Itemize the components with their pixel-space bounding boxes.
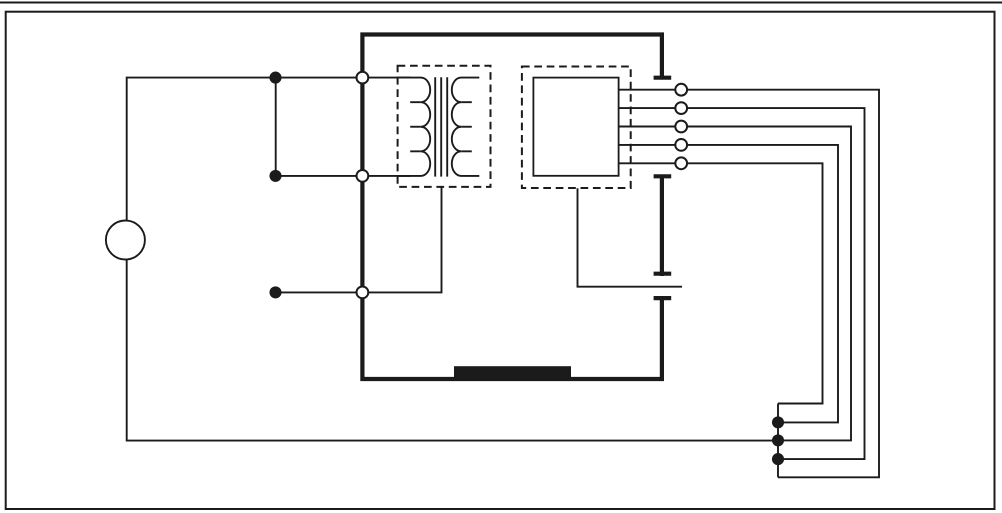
regulator block U1 dashed enclosure xyxy=(522,67,631,189)
junction dot return 1 xyxy=(772,416,784,428)
AC source V1 xyxy=(106,221,145,260)
output terminal 1 xyxy=(675,84,687,96)
output pin 2 wire xyxy=(619,108,865,459)
primary bus (thick loop) xyxy=(362,35,662,380)
output pin 4 wire xyxy=(619,145,838,423)
wire: row 1 to transformer primary xyxy=(276,77,411,79)
transformer T1 primary winding xyxy=(397,78,430,176)
output terminal 2 xyxy=(675,102,687,114)
regulator block U1 body xyxy=(533,78,618,176)
primary winding turn ticks xyxy=(410,102,421,151)
electrode plate E3 (lower) xyxy=(654,296,672,300)
output pin 1 wire xyxy=(619,90,879,478)
secondary winding turn ticks xyxy=(461,102,472,151)
top rule line xyxy=(0,2,1002,4)
output terminal 4 xyxy=(675,139,687,151)
capacitor C1 middle plate with lead from regulator xyxy=(578,188,683,286)
wire: row 2 to transformer primary xyxy=(276,175,411,177)
connector pin dot row 2 xyxy=(269,170,281,182)
wire: link between pin dots xyxy=(275,78,277,176)
bus terminal row 2 xyxy=(357,170,369,182)
wire: AC source to top row xyxy=(127,78,276,221)
wire: AC source bottom return xyxy=(127,260,778,441)
common return node wire xyxy=(777,404,779,478)
transformer T1 secondary winding xyxy=(452,78,480,176)
output terminal 3 xyxy=(675,121,687,133)
output pin 3 wire xyxy=(619,127,851,441)
transformer T1 core xyxy=(435,77,447,176)
electrode plate E1 (top) xyxy=(654,76,672,80)
electrode E2 (bar-ended stem) xyxy=(654,175,672,277)
connector pin dot row 3 xyxy=(269,286,281,298)
junction dot return 3 xyxy=(772,453,784,465)
shield bar on bottom bus xyxy=(454,366,571,380)
output pin 5 wire xyxy=(619,163,823,403)
connector pin dot row 1 xyxy=(269,72,281,84)
transformer T1 dashed enclosure xyxy=(398,66,491,187)
output terminal 5 xyxy=(675,157,687,169)
bus terminal row 1 xyxy=(357,72,369,84)
bus terminal row 3 xyxy=(357,287,369,299)
junction dot return 2 xyxy=(772,434,784,446)
wire: row 3 to transformer bottom lead xyxy=(276,187,442,293)
